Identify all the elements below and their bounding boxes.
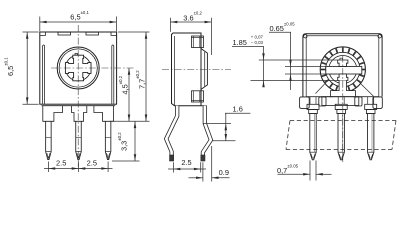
- dim 2.5 bottom side view: dimension line with arrows: [168, 168, 206, 170]
- view 3 vertical centerline: [342, 56, 344, 163]
- view 1 top-right corner step: [111, 32, 117, 35]
- view 2 bottom-right tab: [192, 91, 204, 102]
- view 3 pin 2 shoulder: [337, 97, 339, 105]
- view 1 left standoff: [43, 106, 63, 122]
- svg-text:2.5: 2.5: [56, 158, 66, 167]
- view 2 horizontal centerline: [162, 69, 231, 71]
- dim 0.7: dimension line with outside arrows: [278, 173, 311, 175]
- view 1 body bottom double edge: [42, 105, 116, 107]
- PCB dashed outline: [290, 120, 396, 122]
- svg-text:2.5: 2.5: [181, 158, 191, 167]
- view 3 body bottom edge: [306, 96, 333, 98]
- view 3 left foot: [319, 97, 326, 106]
- dim 3,3 right: dimension line with arrows: [134, 121, 136, 161]
- view 3 right corner post: [373, 97, 382, 109]
- view 2 side view: body outline: [172, 33, 202, 106]
- view 3 rotor knurl ticks: [360, 68, 365, 70]
- svg-text:0.9: 0.9: [219, 168, 229, 177]
- view 1 left side groove: [43, 45, 45, 104]
- view 1 middle standoff: [72, 106, 87, 122]
- dim 3.6 top: extension lines: [170, 18, 172, 32]
- dim 2.5 bottom side view: extension lines: [173, 162, 175, 172]
- dim 6,5 left: extension lines: [23, 31, 39, 33]
- view 1 pin 1 (left): [46, 121, 52, 159]
- dim 3.6 top: dimension line with arrows: [171, 21, 212, 23]
- view 3 right foot: [355, 97, 362, 106]
- view 3 pin 3: [368, 114, 374, 160]
- dim 7,7 right: dimension line with arrows: [145, 32, 147, 121]
- svg-text:1.6: 1.6: [233, 104, 243, 113]
- view 3 cross slot horizontal bar: [326, 66, 362, 74]
- view 1 pin 3 (right): [105, 121, 111, 159]
- view 3 pin 1: [310, 114, 316, 160]
- dim 0.65 reference lines: [285, 65, 336, 67]
- view 3 rotor inner circle: [329, 56, 357, 84]
- view 2 rotor shaft boss: [201, 49, 207, 90]
- view 2 front pin (bends left): [166, 106, 177, 156]
- view 1 front view: body outline: [40, 32, 117, 104]
- dim 7,7 right: extension lines: [118, 31, 150, 33]
- view 2 rear pin (bends right): [203, 106, 211, 156]
- dim 1.6: dimension line with arrows: [225, 113, 227, 141]
- dim 6,5 top: extension lines: [39, 17, 41, 32]
- view 2 top-right tab: [192, 36, 204, 48]
- dim 3,3 right: extension line bottom: [112, 160, 140, 162]
- view 3 corner bead right: [378, 35, 381, 38]
- view 3 body inner lines: [305, 36, 307, 96]
- view 1 top-left corner step: [40, 32, 46, 35]
- dim 4,5 right: dimension line with arrows: [128, 68, 130, 121]
- view 1 vertical centerline: [77, 25, 79, 167]
- view 3 rotor knurl inner circle: [326, 52, 360, 86]
- view 1 pin 2 (middle): [76, 121, 82, 159]
- view 3 corner bead left: [304, 35, 307, 38]
- view 3 center plate: [322, 97, 359, 106]
- view 3 wiper line left: [316, 84, 325, 94]
- dim 2.5 bottom: dimension line with arrows: [44, 168, 113, 170]
- view 1 right side groove: [112, 45, 114, 104]
- dim 1.6: leader line and label: [225, 112, 250, 114]
- dim 2.5 bottom: extension lines: [47, 162, 49, 173]
- dim 0.7: extension lines: [309, 161, 311, 181]
- dim 1.85 reference lines: [259, 59, 339, 61]
- view 1 rotor second circle: [59, 49, 97, 87]
- view 3 left corner post: [300, 97, 310, 109]
- svg-text:2.5: 2.5: [87, 158, 97, 167]
- dim 1.6: reference lines: [203, 122, 231, 124]
- view 2 bottom-right ledge: [201, 105, 207, 107]
- view 3 wiper line right: [361, 84, 374, 96]
- view 3 rotor outer circle: [320, 47, 365, 92]
- view 1 rotor cross slot: [65, 55, 91, 81]
- view 1 top notch left: [58, 32, 71, 35]
- view 3 pin 1 shoulder: [309, 97, 311, 105]
- dim 0.9: extension lines: [202, 162, 204, 181]
- view 1 right standoff: [94, 106, 114, 122]
- view 3 cross slot vertical arm: [338, 60, 348, 66]
- view 1 cross orientation nub: [75, 54, 78, 56]
- view 1 rotor outer circle: [57, 47, 99, 89]
- svg-text:+ 0,07: + 0,07: [251, 35, 264, 40]
- dim 0.9: dimension line with outside arrows: [189, 177, 203, 179]
- svg-text:1.85: 1.85: [233, 38, 247, 47]
- view 3 rotor stem: [331, 81, 356, 97]
- view 3 cross orientation nub: [340, 58, 343, 60]
- dim 6,5 left: dimension line with arrows: [26, 32, 28, 104]
- view 3 pin 3 shoulder: [367, 97, 369, 105]
- view 1 top notch right: [86, 32, 99, 35]
- svg-text:− 0,03: − 0,03: [251, 40, 264, 45]
- view 3 pin 2: [338, 114, 344, 160]
- view 2 body left inner line: [174, 36, 176, 106]
- dim 6,5 top: dimension line with arrows: [40, 21, 117, 23]
- view 3 body outline: [303, 34, 382, 97]
- view 1 rotor inner circle: [65, 55, 91, 81]
- view 1 horizontal centerline: [51, 67, 134, 69]
